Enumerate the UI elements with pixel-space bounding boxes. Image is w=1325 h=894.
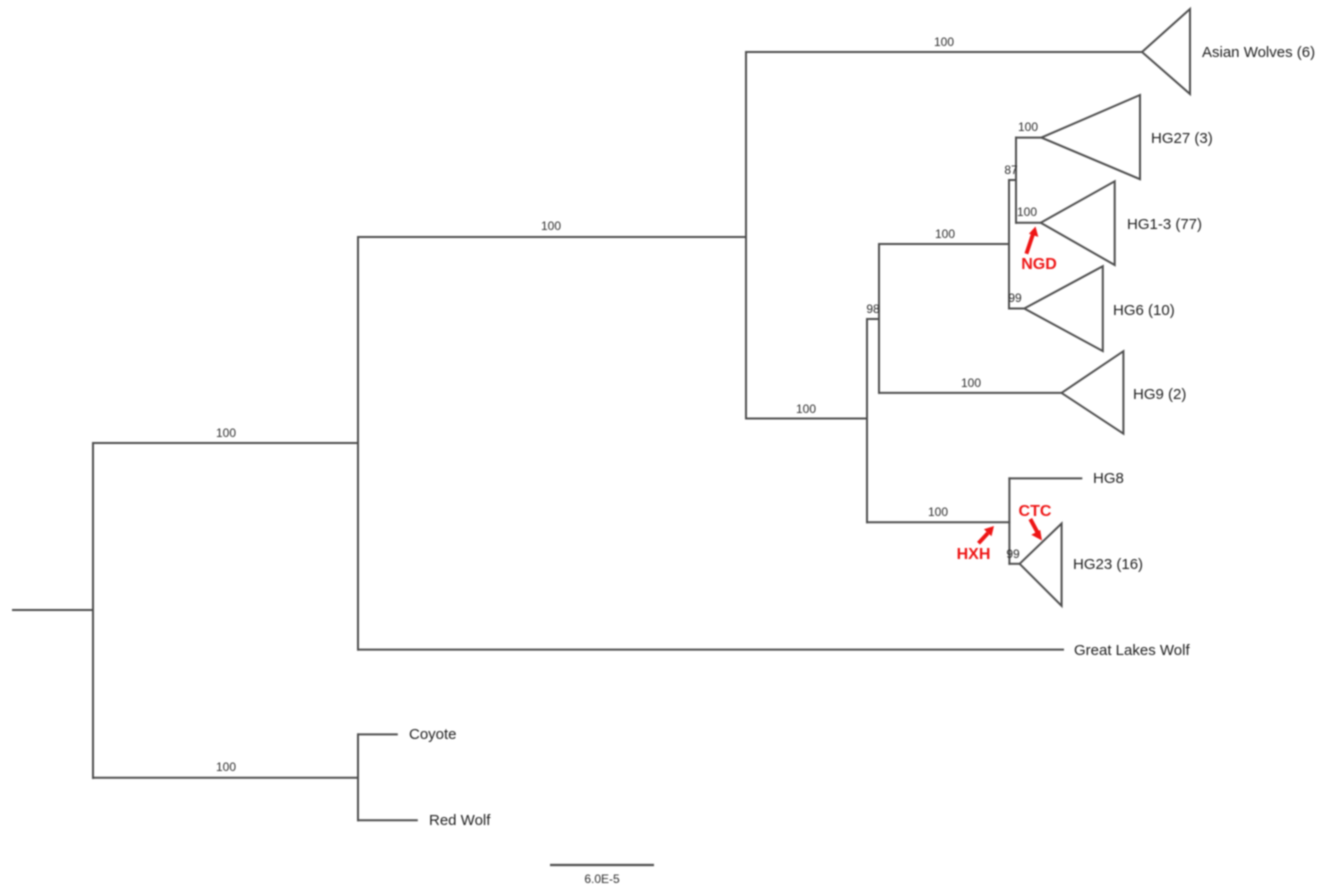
wire x358 vertical [357,237,359,650]
wire HG6 tick [1009,308,1024,310]
wire mid branch 100 [746,418,867,420]
wire lower clade branch [93,777,358,779]
wire Red Wolf branch [358,819,417,821]
clade triangle Asian Wolves [1142,9,1190,94]
svg-text:6.0E-5: 6.0E-5 [584,872,620,886]
wire root vertical [92,443,94,778]
wire x1009.4 vertical [1008,478,1010,563]
wire Asian Wolves branch [746,51,1142,53]
wire node87 tick [1009,179,1016,181]
svg-text:HG8: HG8 [1093,470,1124,487]
wire HG8 branch [1009,477,1081,479]
wire x1016 vertical [1015,138,1017,223]
svg-text:100: 100 [1018,120,1038,134]
svg-text:98: 98 [866,302,880,316]
svg-text:99: 99 [1008,291,1022,305]
svg-text:Coyote: Coyote [409,726,457,743]
wire top branch 100 [358,236,746,238]
wire node98 tick [867,318,879,320]
svg-text:Great Lakes Wolf: Great Lakes Wolf [1074,642,1190,659]
wire clade branch 100 [879,243,1009,245]
annotation arrow HXH [979,526,995,543]
clade triangle HG23 [1020,524,1062,606]
svg-text:HG27 (3): HG27 (3) [1151,130,1213,147]
svg-text:100: 100 [216,760,236,774]
wire Coyote branch [358,733,397,735]
wire x358 lower vertical [357,734,359,820]
scale bar [550,864,654,866]
svg-text:100: 100 [541,219,561,233]
svg-text:100: 100 [961,376,981,390]
svg-text:99: 99 [1006,547,1020,561]
svg-text:Asian Wolves (6): Asian Wolves (6) [1202,44,1315,61]
wire x867 vertical [866,319,868,522]
svg-text:100: 100 [934,35,954,49]
wire x1009 vertical [1008,180,1010,309]
clade triangle HG6 [1024,266,1103,351]
svg-text:HG1-3 (77): HG1-3 (77) [1127,216,1202,233]
wire HG1-3 branch [1016,222,1041,224]
svg-text:100: 100 [1017,205,1037,219]
wire Great Lakes Wolf branch [358,649,1063,651]
wire HG23 tick [1009,563,1019,565]
svg-text:HG9 (2): HG9 (2) [1133,386,1186,403]
clade triangle HG1-3 [1041,181,1115,265]
svg-text:HG23 (16): HG23 (16) [1073,556,1143,573]
svg-text:100: 100 [796,402,816,416]
svg-text:HG6 (10): HG6 (10) [1113,302,1175,319]
wire lower branch 100 [867,521,1009,523]
wire upper clade branch [93,442,358,444]
svg-text:NGD: NGD [1021,256,1057,273]
clade triangle HG9 [1062,351,1124,434]
svg-text:100: 100 [216,426,236,440]
svg-text:100: 100 [928,505,948,519]
svg-text:87: 87 [1004,163,1018,177]
svg-text:Red Wolf: Red Wolf [429,812,491,829]
clade triangle HG27 [1041,95,1140,179]
annotation arrow CTC [1030,519,1042,541]
wire x746 vertical [745,52,747,419]
wire HG27 branch [1016,137,1041,139]
wire x879 vertical [878,244,880,393]
svg-text:HXH: HXH [957,546,991,563]
svg-text:CTC: CTC [1019,503,1052,520]
svg-text:100: 100 [935,227,955,241]
wire root stub [13,609,93,611]
annotation arrow NGD [1026,227,1038,254]
wire HG9 branch [879,392,1062,394]
